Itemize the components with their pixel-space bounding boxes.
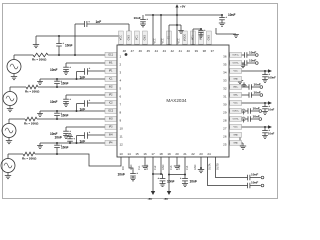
top net pin40 step [193,28,202,45]
svg-text:+: + [146,17,148,21]
ch2 next bypass label [61,113,68,117]
wire channel 1 to pin [48,54,117,56]
svg-text:10nF: 10nF [61,145,68,149]
svg-text:39: 39 [195,49,199,53]
svg-text:33: 33 [223,79,227,83]
AC source V1 [7,55,21,74]
svg-text:OUT2-: OUT2- [233,119,239,121]
svg-text:19: 19 [167,152,171,156]
RS4 label [22,157,37,161]
capacitor ch1 next bypass 10nF [54,78,62,87]
ch2 series cap label [80,108,86,112]
svg-text:+: + [180,176,182,180]
border frame [3,4,278,199]
svg-text:10nF: 10nF [61,113,68,117]
svg-text:34: 34 [223,71,227,75]
capacitor C1 1nF feedback [75,19,129,31]
svg-text:29: 29 [223,111,227,115]
resistor RS1 200 [14,53,48,57]
svg-text:27: 27 [223,127,227,131]
wire ch1 rail [36,35,119,37]
svg-text:GND: GND [178,164,181,170]
wire CM1- row with cap and terminal [229,91,263,98]
svg-text:+: + [69,129,71,133]
wire ch1 cap L-drop [76,72,85,81]
wire OUT1+ row with cap and terminal [229,51,258,58]
ch1 input cap label [50,68,57,72]
ch3 input cap label [50,132,57,136]
bottom pin numbers 13-24 [119,152,211,156]
svg-text:VCC: VCC [120,35,123,40]
rail end cap label 10nF [228,13,235,17]
ground on ch1 rail [33,36,39,48]
right pin numbers 36-25 [223,55,227,147]
wire ch3 row b [66,126,117,128]
svg-text:CL3: CL3 [170,165,173,170]
wire channel 3 to pin [37,118,117,120]
wire ch2 cap L-drop [76,104,85,113]
wire rail to pin 41 [176,15,178,45]
junction dot ch2 line [56,86,58,88]
svg-text:VCC: VCC [234,127,239,129]
rail junction dots [152,14,178,16]
wire ch3 row c [88,134,118,136]
capacitor top-left decoupling [140,15,148,27]
wire ch2 row c [88,102,118,104]
svg-text:GND: GND [130,164,133,170]
svg-text:23: 23 [199,152,203,156]
svg-text:VCC: VCC [234,71,239,73]
-5V arrow A [151,191,155,195]
wire ch1 feedback up [74,24,76,56]
svg-text:GND: GND [233,143,238,145]
capacitor 1uF on pin12 row [67,134,75,144]
bottom pin14 cap label [118,173,125,177]
+5V supply arrow [175,4,178,15]
svg-text:43: 43 [163,49,167,53]
capacitor ch3 series 1nF [85,130,91,139]
svg-text:GND: GND [233,79,238,81]
top net pin42 step [169,24,181,45]
svg-text:10nF: 10nF [268,132,275,136]
resistor RS4 200 [8,152,35,156]
svg-text:GND: GND [208,35,211,41]
capacitor ch3 input 10nF [63,127,71,138]
+5V label [180,5,185,9]
svg-text:18: 18 [159,152,163,156]
svg-text:46: 46 [139,49,143,53]
GND row pin 25 [229,142,246,149]
svg-text:+: + [69,65,71,69]
top supply rail [145,14,222,16]
ground on ch1 row d [37,79,43,84]
capacitor top pin40 tap [198,28,206,37]
wire pin17 down [152,157,154,191]
svg-text:45: 45 [147,49,151,53]
svg-text:+: + [268,72,270,76]
svg-text:41: 41 [179,49,183,53]
output B cap label [251,172,258,176]
wire pin19 down [168,157,170,191]
top right ground [216,28,239,37]
IC U1 MAX2034 body [117,45,229,157]
svg-text:CL1: CL1 [138,165,141,170]
svg-text:31: 31 [223,95,227,99]
AC source V3 [2,119,16,138]
RS2 label [25,90,40,94]
junction dot ch4 line [56,153,58,155]
svg-text:+5V: +5V [180,5,185,9]
svg-text:+: + [69,97,71,101]
svg-text:GND: GND [146,164,149,170]
svg-text:VC1: VC1 [136,35,139,40]
svg-text:42: 42 [171,49,175,53]
svg-text:+: + [268,104,270,108]
wire join 19-21 [169,174,185,176]
ground below source V1 [11,74,17,80]
wire rail to pin 43 [160,15,162,45]
capacitor clusterB 10nF [180,175,188,187]
svg-text:10nF: 10nF [254,91,261,95]
svg-text:25: 25 [223,143,227,147]
wire pin21 down [184,157,186,176]
svg-text:10nF: 10nF [118,173,125,177]
svg-text:10nF: 10nF [50,100,57,104]
capacitor ch2 series 1nF [85,98,91,107]
wire channel 2 to pin [38,86,117,88]
ground below source V4 [5,173,11,179]
RS3 label [24,122,39,126]
svg-text:10nF: 10nF [167,180,174,184]
svg-text:48: 48 [123,49,127,53]
svg-text:10nF: 10nF [253,115,260,119]
capacitor ch1 bypass 10nF [56,35,64,56]
wire CM1+ row with cap and terminal [229,83,263,90]
svg-text:GND: GND [162,164,165,170]
svg-text:GND: GND [144,35,147,41]
svg-text:16: 16 [143,152,147,156]
capacitor clusterA 10nF [157,174,165,187]
GND row pin 26 [229,135,240,143]
ground on ch3 row d [37,143,43,148]
ch3 next bypass label [61,145,68,149]
ground below source V3 [6,138,12,144]
wire ch3 cap L-drop [76,136,85,145]
svg-text:40: 40 [187,49,191,53]
wire ch3 row d [40,142,117,144]
svg-text:CM1-: CM1- [233,95,238,97]
svg-text:10nF: 10nF [249,51,256,55]
svg-text:36: 36 [223,55,227,59]
RS1 label [32,58,47,62]
svg-text:26: 26 [223,135,227,139]
svg-text:100nF: 100nF [268,76,276,80]
svg-text:10nF: 10nF [268,108,275,112]
ground under pin20 [174,157,180,169]
svg-text:CL4: CL4 [186,165,189,170]
svg-text:IN4: IN4 [122,166,125,170]
svg-text:OUT2+: OUT2+ [232,111,239,113]
C1 label 1nF [96,20,102,24]
svg-text:1nF: 1nF [96,20,102,24]
capacitor rail end 10nF [219,14,227,26]
ground below source V2 [7,106,13,112]
ground under pin16 [142,157,148,169]
svg-text:+: + [62,41,64,45]
svg-text:EC2: EC2 [109,111,114,113]
svg-text:47: 47 [131,49,135,53]
svg-text:VCC: VCC [178,38,181,43]
svg-text:10nF: 10nF [251,172,258,176]
wire ch1 row c [88,70,118,72]
ch1 series cap label [80,76,86,80]
1uF cap label [55,136,62,140]
svg-text:GND: GND [128,35,131,41]
svg-text:32: 32 [223,87,227,91]
capacitor ch1 series 1nF [85,66,91,75]
AC source V4 [1,154,15,173]
capacitor output A 10nF [248,183,264,189]
wire ch1 row d [40,78,117,80]
svg-text:10nF: 10nF [65,44,72,48]
svg-text:21: 21 [183,152,187,156]
top pin numbers 48-37 [123,49,215,53]
svg-text:38: 38 [203,49,207,53]
wire join 17-18 [153,173,163,175]
svg-text:24: 24 [207,152,211,156]
svg-text:35: 35 [223,63,227,67]
AC source V2 [3,87,17,106]
resistor RS3 200 [9,117,37,121]
svg-text:10nF: 10nF [134,16,141,20]
svg-text:EC1: EC1 [109,55,114,57]
svg-text:28: 28 [223,119,227,123]
ground under pin22 [198,157,204,173]
svg-text:10: 10 [120,127,124,131]
svg-text:10nF: 10nF [251,180,258,184]
svg-text:VCC: VCC [234,103,239,105]
svg-text:CM1+: CM1+ [233,87,239,89]
svg-text:OUTA: OUTA [208,163,211,170]
capacitor ch1 input 10nF [63,63,71,74]
ch1 next bypass label [61,81,68,85]
wire OUT2- row with cap and terminal [229,115,262,123]
svg-text:13: 13 [119,152,123,156]
clusterB cap label [190,180,197,184]
ch1 bypass cap label 10nF [65,44,72,48]
svg-text:+: + [204,28,206,32]
top net pin42 ground tap [178,25,183,33]
svg-text:10nF: 10nF [228,13,235,17]
IC U1 name label [166,98,187,103]
capacitor ch3 next bypass 10nF [54,142,62,154]
clusterA cap label [167,180,174,184]
left pin numbers 1-12 [120,55,124,147]
wire rail to pin 44 [152,15,154,45]
VCC row pin 27 [229,125,275,138]
capacitor ch2 next bypass 10nF [54,110,62,119]
svg-text:CL2: CL2 [154,165,157,170]
svg-text:GND: GND [194,164,197,170]
bottom cap pin14 10nF [129,157,138,181]
svg-text:OUTB: OUTB [216,163,219,170]
VCC row pin 30 [229,101,275,114]
output A cap label [251,180,258,184]
ch2 input cap label [50,100,57,104]
-5V arrow B [167,191,171,195]
svg-text:10nF: 10nF [61,81,68,85]
GND row pin 33 [229,79,243,84]
svg-text:MAX2034: MAX2034 [166,98,187,103]
wire ch1 row b [66,62,117,64]
svg-text:OUT1+: OUT1+ [232,55,239,57]
wire OUT1- row with cap and terminal [229,59,258,68]
capacitor output B 10nF [248,175,264,181]
svg-text:VCC: VCC [154,38,157,43]
right pin name labels [230,52,242,145]
wire ch2 row d [40,110,117,112]
capacitor ch2 input 10nF [63,95,71,106]
wire output B down [216,157,248,178]
wire pin18 down [160,157,162,175]
wire ch2 row b [66,94,117,96]
svg-text:15: 15 [135,152,139,156]
svg-text:10nF: 10nF [249,59,256,63]
resistor RS2 200 [10,85,38,89]
ground on ch2 row d [37,111,43,116]
svg-text:12: 12 [120,143,124,147]
svg-text:10nF: 10nF [50,68,57,72]
svg-text:22: 22 [191,152,195,156]
svg-text:+: + [73,136,75,140]
svg-text:+: + [157,176,159,180]
pin 1 index dot [125,53,128,56]
svg-text:+: + [225,15,227,19]
svg-text:14: 14 [127,152,131,156]
svg-text:OUT1-: OUT1- [233,63,239,65]
svg-text:+: + [268,128,270,132]
wire OUT2+ row with cap and terminal [229,107,262,115]
svg-text:GND: GND [233,135,238,137]
-5V label B [164,197,170,201]
top-left cap label 10nF [134,16,141,20]
top pin name labels [119,31,212,44]
svg-text:17: 17 [151,152,155,156]
bottom pin name labels [122,163,220,170]
svg-text:10nF: 10nF [253,107,260,111]
svg-text:30: 30 [223,103,227,107]
svg-text:10nF: 10nF [55,136,62,140]
svg-text:10nF: 10nF [190,180,197,184]
-5V label A [148,197,154,201]
wire channel 4 stepped to bottom pin 13 [35,154,121,166]
wire output A down [208,157,248,186]
VCC row pin 34 [229,69,276,82]
svg-text:20: 20 [175,152,179,156]
svg-text:37: 37 [211,49,215,53]
junction dot ch3 line [56,118,58,120]
left pin name labels [105,52,117,145]
svg-text:MODE: MODE [184,34,187,42]
ch3 series cap label [80,140,86,144]
svg-text:VCC: VCC [162,38,165,43]
svg-text:10nF: 10nF [254,83,261,87]
svg-text:44: 44 [155,49,159,53]
svg-text:+: + [136,171,138,175]
svg-text:11: 11 [120,135,123,139]
